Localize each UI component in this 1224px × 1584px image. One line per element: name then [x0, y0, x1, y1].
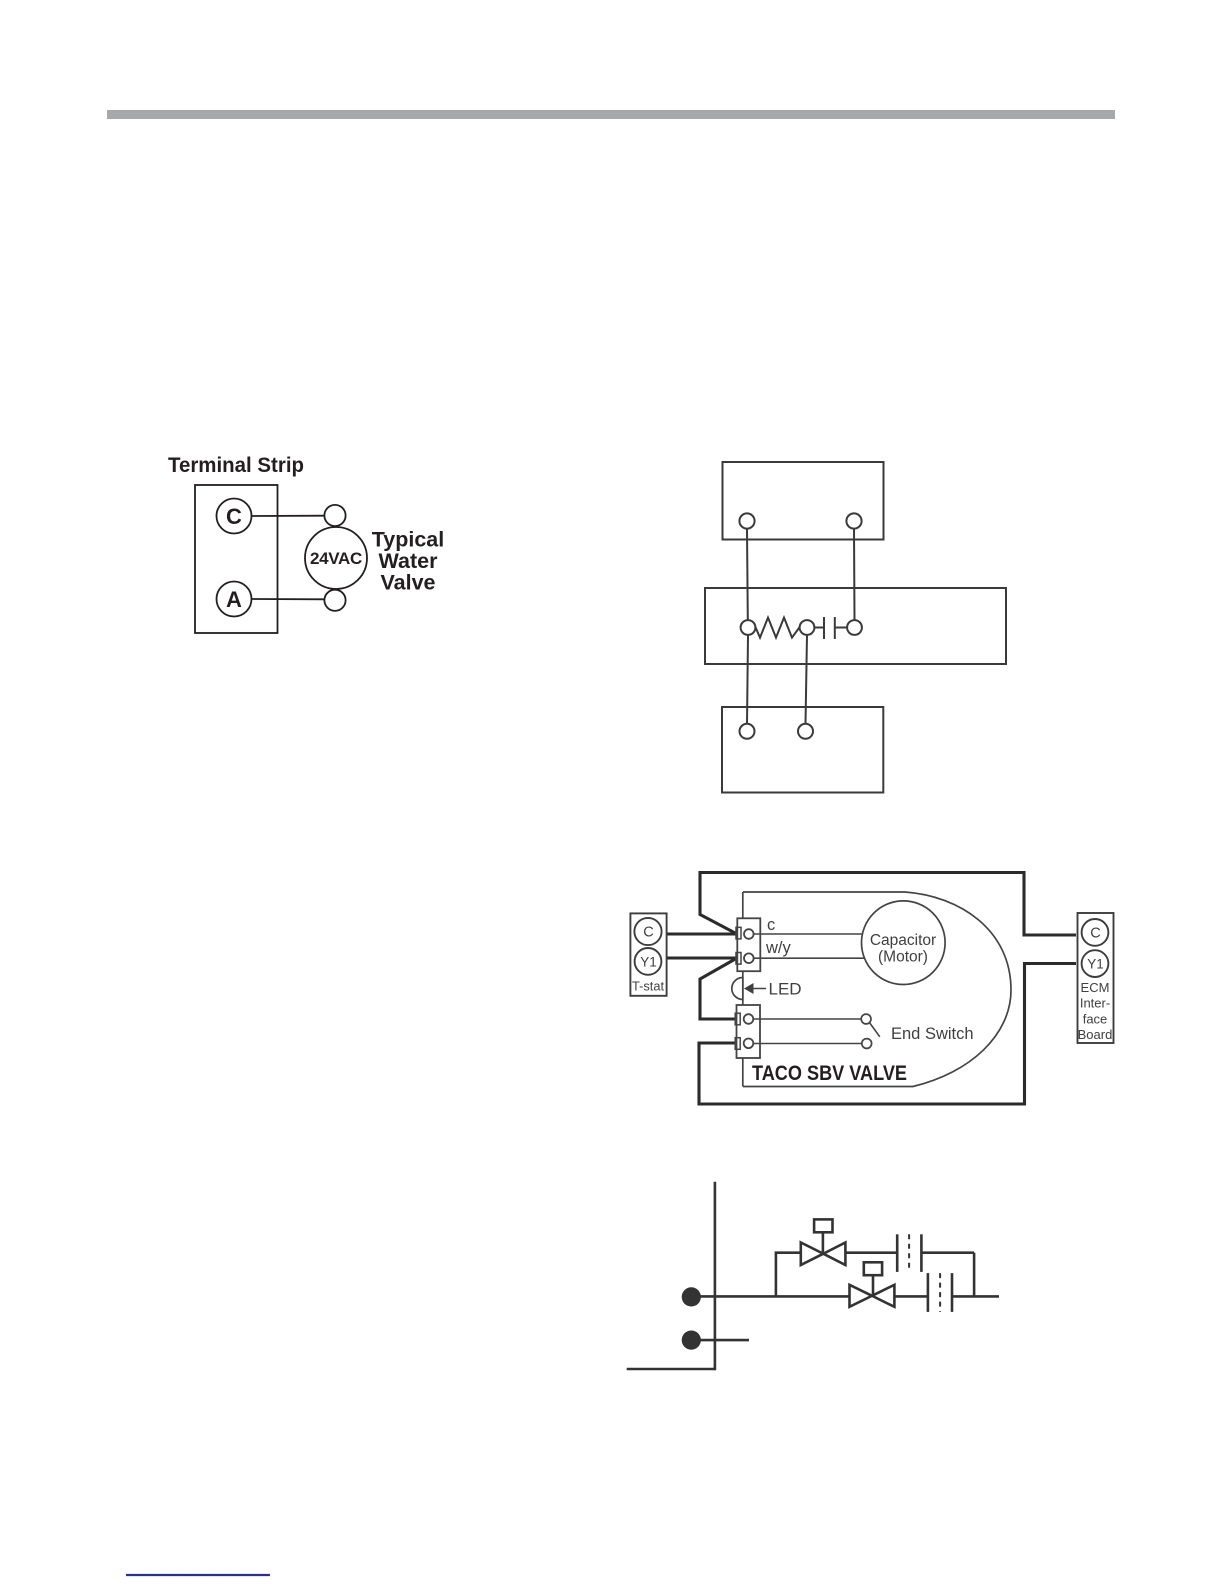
svg-text:Typical: Typical — [372, 528, 445, 552]
svg-text:Capacitor: Capacitor — [870, 932, 936, 949]
svg-text:Y1: Y1 — [1087, 957, 1104, 972]
svg-text:Inter-: Inter- — [1080, 996, 1110, 1011]
svg-text:Board: Board — [1078, 1027, 1113, 1042]
svg-text:Water: Water — [379, 549, 439, 573]
svg-text:ECM: ECM — [1081, 980, 1110, 995]
svg-text:C: C — [1090, 925, 1100, 941]
svg-text:(Motor): (Motor) — [878, 949, 928, 966]
svg-text:Y1: Y1 — [640, 955, 657, 970]
svg-text:C: C — [226, 504, 242, 529]
svg-text:TACO SBV VALVE: TACO SBV VALVE — [752, 1061, 907, 1085]
svg-text:24VAC: 24VAC — [310, 549, 362, 568]
svg-text:A: A — [226, 587, 242, 612]
svg-text:w/y: w/y — [765, 939, 792, 957]
svg-text:LED: LED — [769, 980, 802, 999]
svg-text:T-stat: T-stat — [632, 979, 664, 994]
svg-text:Valve: Valve — [381, 571, 436, 595]
svg-text:c: c — [767, 916, 775, 934]
svg-text:Terminal Strip: Terminal Strip — [168, 453, 304, 477]
svg-text:face: face — [1083, 1011, 1108, 1026]
svg-text:End Switch: End Switch — [891, 1025, 974, 1043]
svg-text:C: C — [643, 925, 653, 941]
